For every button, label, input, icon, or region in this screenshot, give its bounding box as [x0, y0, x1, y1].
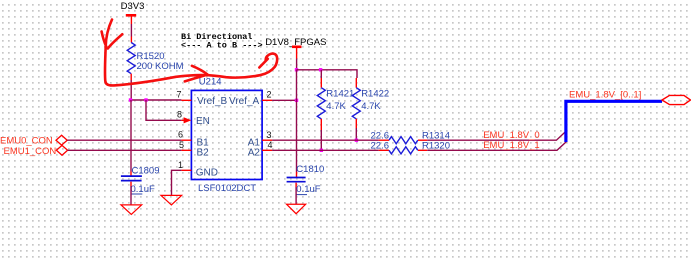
junction R1421 / A2 — [320, 149, 323, 152]
svg-text:5: 5 — [179, 140, 184, 150]
resistor R1422 — [352, 78, 389, 119]
resistor R1314 — [371, 130, 451, 143]
pin 3 stub — [262, 139, 272, 141]
svg-text:200 KOHM: 200 KOHM — [137, 61, 184, 72]
svg-text:0.1uF: 0.1uF — [296, 184, 320, 195]
pin 6 stub — [181, 139, 191, 141]
svg-text:7: 7 — [176, 90, 181, 100]
pin 1 stub — [181, 169, 191, 171]
wire D3V3 net down to C1809 — [130, 100, 132, 176]
wire GND pin to ground — [172, 170, 182, 195]
ground below U214 — [161, 195, 182, 205]
wire to resistor tops — [297, 70, 358, 78]
svg-text:D3V3: D3V3 — [121, 1, 145, 12]
svg-text:6: 6 — [178, 130, 183, 140]
wire D3V3 to R1520 — [130, 24, 132, 43]
capacitor C1810 — [287, 164, 325, 195]
wire B2 — [68, 149, 182, 151]
wire D1V8 down to C1810 — [296, 70, 298, 178]
wire EMU_1.8V_1 — [427, 140, 566, 151]
junction R1421 top — [319, 68, 322, 71]
svg-text:LSF0102DCT: LSF0102DCT — [198, 183, 256, 194]
svg-text:8: 8 — [177, 110, 182, 120]
wire C1810 to ground — [295, 183, 297, 205]
svg-text:A2: A2 — [248, 147, 261, 158]
capacitor C1809 — [121, 165, 160, 195]
wire A1 — [272, 139, 379, 141]
junction D1V8 / resistor feed — [295, 68, 298, 71]
svg-text:0.1uF: 0.1uF — [131, 184, 155, 195]
pin 2 stub — [262, 99, 272, 101]
svg-text:C1809: C1809 — [132, 165, 160, 176]
svg-text:4.7K: 4.7K — [326, 101, 346, 112]
wire pin2 to D1V8 — [272, 99, 296, 101]
pin 4 stub — [262, 149, 272, 151]
wire R1520 bottom to node — [130, 74, 132, 100]
wire R1421 bottom to A2 — [320, 119, 322, 151]
svg-text:EMU1_CON: EMU1_CON — [4, 146, 57, 157]
svg-text:Vref_B: Vref_B — [197, 96, 228, 107]
off-page connector EMU_1.8V bus — [662, 95, 691, 104]
resistor R1520 — [127, 43, 183, 74]
pin 5 stub — [181, 149, 191, 151]
pin 8 stub EN — [181, 119, 185, 121]
wire node to pin 7 — [131, 99, 182, 101]
wire A2 — [272, 149, 379, 151]
junction EN tap — [144, 98, 147, 101]
bus EMU_1.8V_[0..1] — [566, 90, 662, 142]
svg-text:4: 4 — [268, 140, 273, 150]
wire R1422 bottom to A1 — [355, 119, 357, 140]
wire B1 — [67, 139, 181, 141]
junction R1422 / A1 — [355, 139, 358, 142]
junction at R1520 / C1809 — [129, 98, 132, 101]
text Bi Directional note — [181, 32, 263, 50]
svg-text:EMU_1.8V_[0..1]: EMU_1.8V_[0..1] — [569, 90, 641, 101]
wire D1V8 stem — [296, 59, 298, 70]
svg-text:2: 2 — [267, 90, 272, 100]
svg-text:R1421: R1421 — [326, 89, 354, 100]
wire C1809 to ground — [130, 182, 132, 205]
svg-text:GND: GND — [196, 168, 218, 179]
svg-text:U214: U214 — [199, 76, 222, 87]
power symbol D3V3 — [121, 1, 145, 24]
off-page connector EMU1_CON — [4, 145, 68, 156]
svg-text:EMU_1.8V_1: EMU_1.8V_1 — [483, 140, 540, 151]
svg-text:4.7K: 4.7K — [361, 101, 381, 112]
ground below C1809 — [121, 205, 142, 215]
wire EN branch — [146, 100, 181, 120]
svg-text:R1422: R1422 — [361, 89, 389, 100]
svg-text:22.6: 22.6 — [371, 141, 390, 152]
resistor R1421 — [317, 70, 354, 119]
svg-text:3: 3 — [267, 130, 272, 140]
resistor R1320 — [371, 140, 451, 154]
svg-text:C1810: C1810 — [296, 164, 324, 175]
pin 7 stub — [181, 99, 191, 101]
svg-text:1: 1 — [178, 160, 183, 170]
junction pin2 / D1V8 vertical — [295, 99, 298, 102]
svg-text:<--- A to B --->: <--- A to B ---> — [181, 40, 263, 50]
svg-text:EN: EN — [196, 116, 210, 127]
ground below C1810 — [287, 204, 306, 213]
annotation scribble red arrow — [102, 20, 278, 86]
off-page connector EMU0_CON — [0, 135, 67, 146]
wire EMU_1.8V_0 — [427, 130, 565, 141]
svg-text:B2: B2 — [197, 147, 210, 158]
IC U214 LSF0102DCT — [176, 76, 272, 194]
svg-text:Vref_A: Vref_A — [229, 96, 260, 107]
power symbol D1V8_FPGAS — [265, 37, 326, 58]
